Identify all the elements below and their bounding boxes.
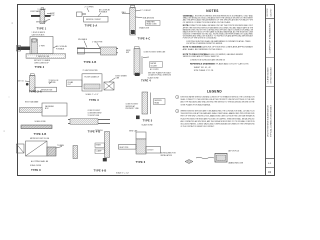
detail TYPE 8	[17, 138, 65, 172]
svg-text:TYPE 6-B: TYPE 6-B	[94, 170, 107, 173]
svg-text:SERVICE RUN: SERVICE RUN	[41, 90, 53, 92]
svg-text:2" PIPE: 2" PIPE	[39, 46, 46, 48]
svg-text:SITE PLANS AND UTILITY LAYOUTS: SITE PLANS AND UTILITY LAYOUTS	[211, 63, 250, 66]
svg-text:2" SERVICE LINE: 2" SERVICE LINE	[36, 56, 50, 58]
svg-text:METER: METER	[151, 63, 158, 65]
svg-text:TYPE 2: TYPE 2	[35, 66, 45, 69]
detail TYPE 3	[67, 69, 128, 102]
svg-text:CONN TO EXIST SERV LINE: CONN TO EXIST SERV LINE	[144, 51, 167, 53]
svg-text:TYPE 1: TYPE 1	[37, 27, 47, 30]
svg-text:TO BLDG OF: TO BLDG OF	[49, 80, 59, 82]
svg-text:POSSIBLE: POSSIBLE	[99, 11, 108, 13]
svg-text:EXISTING WATER SERVICE LINE AN: EXISTING WATER SERVICE LINE AND CURB STO…	[181, 96, 255, 99]
svg-text:BY CONTR: BY CONTR	[150, 69, 159, 71]
svg-text:TO EXIST LINE: TO EXIST LINE	[88, 115, 100, 117]
svg-text:AND TYPE INDICATED AND SHALL E: AND TYPE INDICATED AND SHALL EXTEND THE …	[181, 101, 256, 104]
svg-text:SERVICE CONDUIT: SERVICE CONDUIT	[86, 19, 101, 21]
svg-text:CONN TO EXIST: CONN TO EXIST	[88, 110, 101, 112]
svg-text:1: 1	[177, 97, 178, 99]
detail plugged main	[196, 150, 244, 165]
svg-text:LEGEND: LEGEND	[207, 89, 222, 93]
svg-text:1" CONDUIT: 1" CONDUIT	[142, 10, 151, 12]
svg-text:2: 2	[177, 111, 178, 113]
svg-text:SERVICE LINES AND FITTINGS: SH: SERVICE LINES AND FITTINGS: SHEET 41.	[183, 55, 220, 58]
svg-text:RECORD: RECORD	[49, 82, 57, 84]
notes paragraph 3	[183, 46, 254, 51]
svg-text:OVER CURB STOP: OVER CURB STOP	[34, 63, 49, 65]
detail TYPE 3-B upper run	[20, 101, 68, 124]
svg-text:SERVICE: SERVICE	[155, 100, 163, 102]
detail TYPE 3-A	[77, 7, 111, 28]
detail TYPE 4-C	[122, 5, 161, 40]
notes reference drawings list	[183, 53, 250, 72]
detail TYPE 1	[31, 7, 55, 31]
notes paragraph 2b	[187, 40, 252, 45]
notes paragraph 2	[183, 24, 254, 39]
svg-text:METER BOX SET FLUSH: METER BOX SET FLUSH	[30, 138, 50, 140]
note under detail TYPE 4	[148, 71, 172, 76]
svg-text:DD FORM: DD FORM	[267, 8, 269, 16]
svg-text:CONN TO EXIST: CONN TO EXIST	[126, 104, 139, 106]
detail TYPE 3-B lower bar	[21, 125, 52, 136]
svg-text:TYPE 2-A: TYPE 2-A	[29, 91, 42, 94]
svg-text:SITE PLANS FOR EACH AREA.: SITE PLANS FOR EACH AREA.	[181, 103, 211, 106]
svg-text:CORP: CORP	[50, 13, 55, 15]
notes paragraph 1	[183, 15, 254, 24]
small post detail	[73, 146, 78, 159]
svg-text:SITE PLANS 1 TO 28.: SITE PLANS 1 TO 28.	[194, 69, 214, 72]
detail TYPE 4-B mid run	[68, 110, 110, 133]
svg-text:TYPE R-B: TYPE R-B	[95, 130, 103, 132]
svg-text:TYPE 3: TYPE 3	[89, 99, 99, 102]
border frame	[18, 5, 275, 176]
svg-text:TYPE 3-A: TYPE 3-A	[85, 24, 98, 27]
svg-text:CONN NEW SERV: CONN NEW SERV	[88, 113, 103, 115]
svg-text:AND SHALL BE VERIFIED IN THE F: AND SHALL BE VERIFIED IN THE FIELD.	[183, 48, 223, 51]
svg-text:SHEET NO. 41, 42.: SHEET NO. 41, 42.	[194, 67, 212, 69]
svg-text:SOCKET: SOCKET	[151, 65, 158, 67]
svg-text:U.S. ARMY ENGINEER: U.S. ARMY ENGINEER	[266, 67, 269, 84]
svg-text:TYPE 2-B: TYPE 2-B	[84, 61, 97, 64]
svg-text:POSSIBLE: POSSIBLE	[56, 48, 65, 50]
svg-text:3/4" CS: 3/4" CS	[18, 80, 25, 82]
detail TYPE 6-B	[94, 130, 110, 173]
svg-text:2" COPPER: 2" COPPER	[85, 7, 95, 9]
legend item 2	[176, 109, 255, 128]
svg-text:DISTRICT MOBILE ALA: DISTRICT MOBILE ALA	[270, 67, 273, 84]
svg-text:1354 REV: 1354 REV	[270, 8, 272, 17]
detail TYPE 2-A	[18, 74, 58, 94]
scan speckles	[4, 23, 13, 132]
svg-text:FEET OF THE NEW CONSTRUCTION.: FEET OF THE NEW CONSTRUCTION. ABANDONED …	[181, 115, 255, 118]
notes heading	[206, 9, 218, 13]
svg-text:OF SERVICE CONNECTION INDICATE: OF SERVICE CONNECTION INDICATED ON THE P…	[183, 21, 231, 24]
svg-text:PORTION OF THE WORK IS CONCEAL: PORTION OF THE WORK IS CONCEALED.	[183, 37, 217, 40]
svg-text:UTILITY SYSTEMS MODERNIZATION: UTILITY SYSTEMS MODERNIZATION	[266, 104, 269, 137]
detail TYPE 6	[116, 130, 193, 175]
svg-text:OUTLET: OUTLET	[147, 150, 153, 152]
detail TYPE 2	[17, 32, 68, 69]
detail TYPE 4	[126, 47, 166, 83]
svg-text:AND COMPACTED AS SPECIFIED, AN: AND COMPACTED AS SPECIFIED, AND THE SURF…	[181, 120, 255, 123]
svg-text:RISER: RISER	[96, 144, 102, 146]
svg-text:INLET PIPE: INLET PIPE	[120, 147, 130, 149]
legend heading	[207, 89, 222, 93]
svg-text:TYPE 8: TYPE 8	[31, 169, 41, 172]
svg-text:TYPE 4: TYPE 4	[141, 80, 151, 83]
svg-text:CORPS OF ENGINEERS: CORPS OF ENGINEERS	[269, 23, 271, 54]
svg-text:STOP: STOP	[50, 15, 54, 17]
svg-text:THE EXISTING LINE AT THE MAIN: THE EXISTING LINE AT THE MAIN AND SHALL …	[181, 112, 256, 115]
svg-text:OUT: OUT	[68, 84, 71, 86]
svg-text:NOTES: NOTES	[206, 9, 218, 13]
legend item 1	[176, 95, 255, 106]
detail TYPE 5	[126, 92, 166, 126]
svg-text:1 ROW OF BRICK: 1 ROW OF BRICK	[32, 32, 46, 34]
svg-text:TYPE 3-B: TYPE 3-B	[34, 133, 47, 136]
svg-text:PLACE PROVIDED THE ENDS ARE PL: PLACE PROVIDED THE ENDS ARE PLUGGED OR C…	[181, 117, 255, 120]
svg-text:INCLUDING PAVING, CURBS, WALKS: INCLUDING PAVING, CURBS, WALKS, AND TURF…	[181, 122, 256, 125]
detail TYPE 2-B	[77, 38, 118, 64]
svg-text:ENT: ENT	[126, 52, 129, 54]
svg-text:WHERE EXISTING SERVICES ARE TO: WHERE EXISTING SERVICES ARE TO BE ABANDO…	[181, 110, 255, 113]
svg-text:TYPICAL CONNECTION DETAILS: TYPICAL CONNECTION DETAILS	[270, 104, 273, 137]
svg-text:TYPE 4-C: TYPE 4-C	[138, 38, 151, 41]
svg-text:TYPE 6: TYPE 6	[136, 161, 146, 164]
title strip	[265, 5, 275, 176]
svg-text:SHALL CONNECT TO THE EXISTING: SHALL CONNECT TO THE EXISTING LINE AT TH…	[181, 98, 256, 101]
svg-text:EXCEPT AS OTHERWISE PERMITTED: EXCEPT AS OTHERWISE PERMITTED HEREIN.	[187, 42, 223, 45]
svg-text:OF THE CONTRACTOR UNDER THIS C: OF THE CONTRACTOR UNDER THIS CONTRACT.	[181, 125, 215, 128]
svg-text:EXIST SEWER: EXIST SEWER	[116, 76, 128, 78]
svg-text:CONNECTION SCHEDULES ARE SHOWN: CONNECTION SCHEDULES ARE SHOWN ON	[190, 59, 225, 62]
svg-text:PROPERTY LINE: PROPERTY LINE	[126, 108, 140, 110]
svg-text:TYPE 5: TYPE 5	[143, 120, 153, 123]
